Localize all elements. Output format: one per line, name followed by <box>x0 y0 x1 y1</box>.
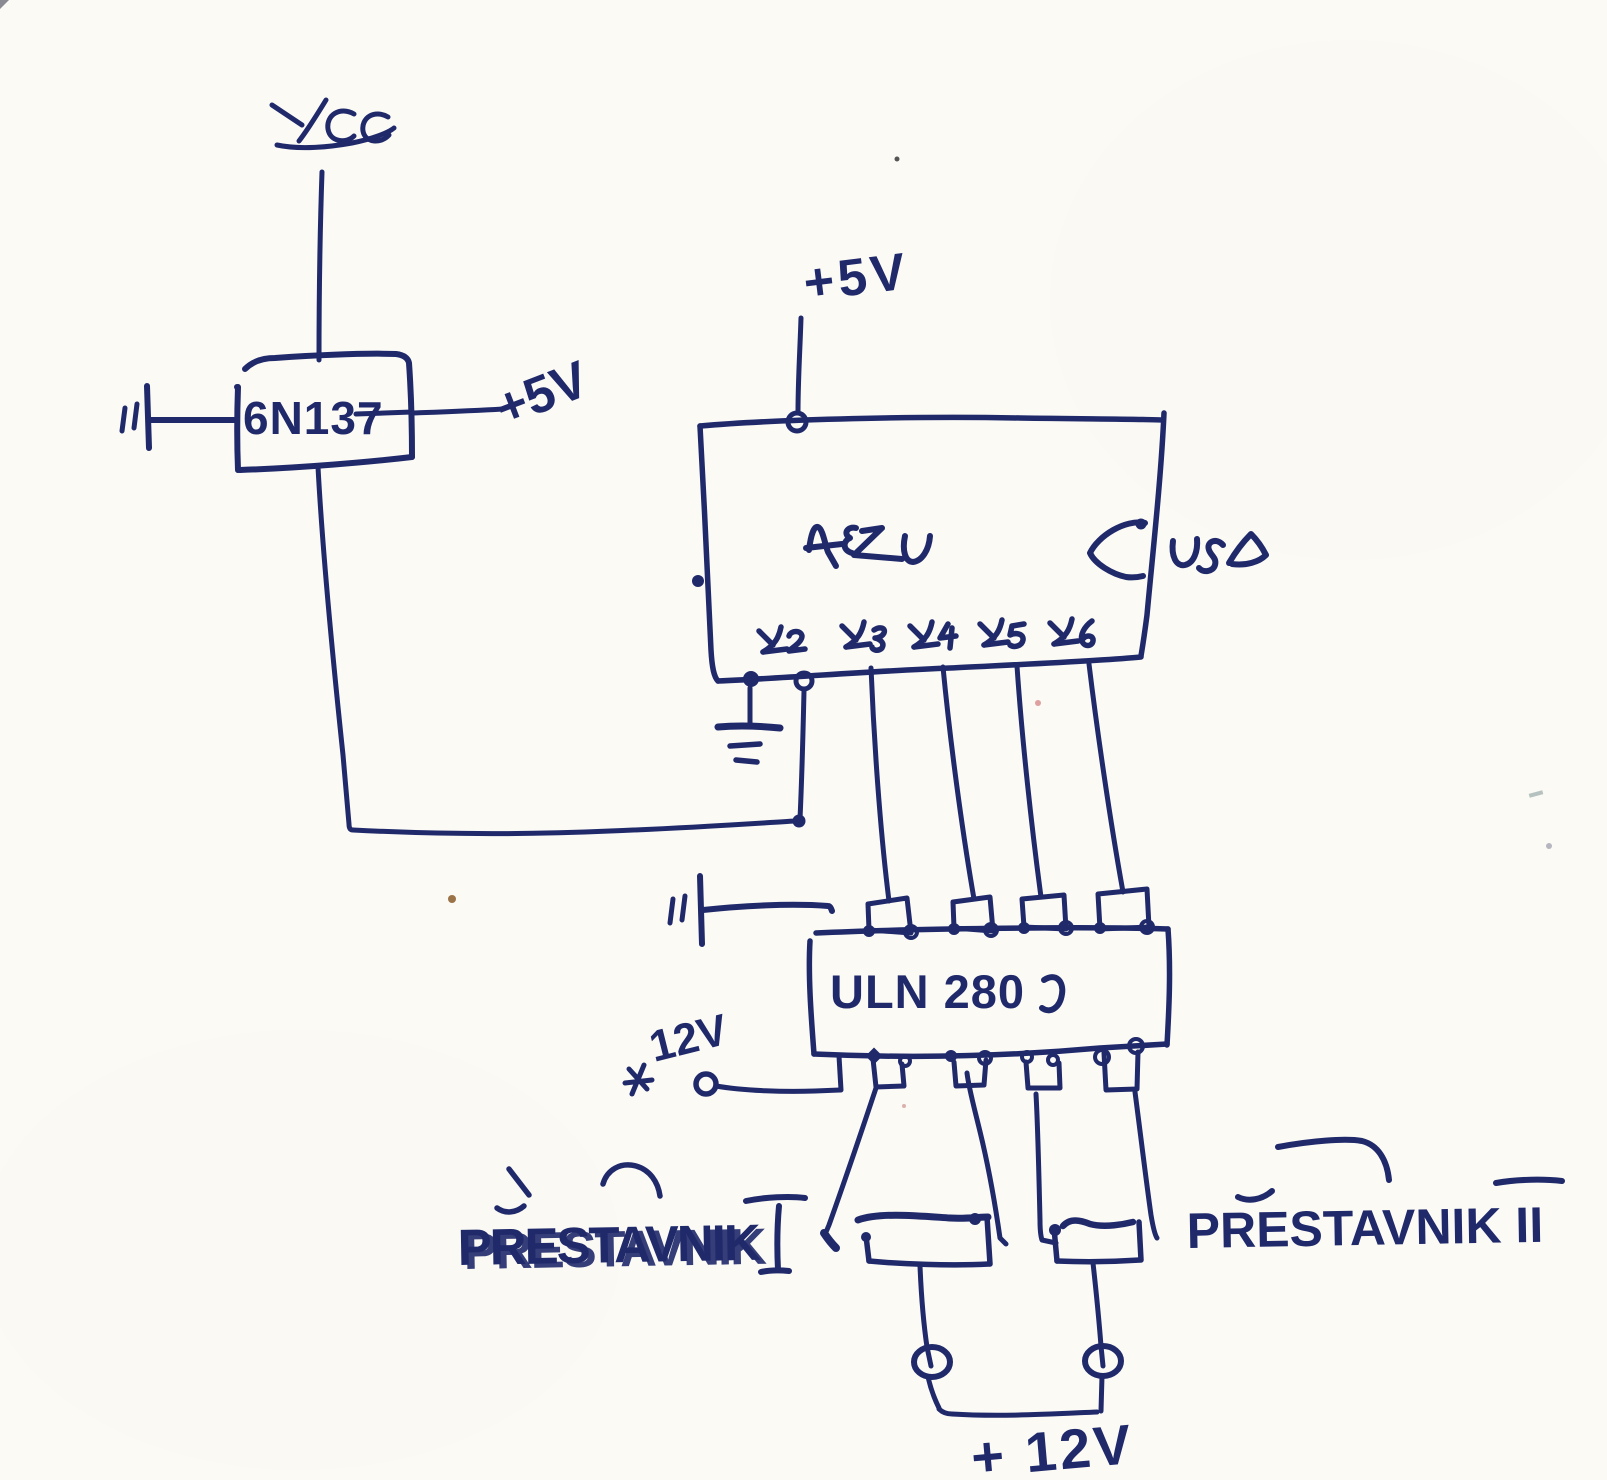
svg-text:PRESTAVNIK: PRESTAVNIK <box>463 1218 767 1280</box>
svg-text:6N137: 6N137 <box>243 392 384 444</box>
svg-text:ULN 280: ULN 280 <box>830 965 1025 1018</box>
svg-text:PRESTAVNIK II: PRESTAVNIK II <box>1186 1197 1543 1259</box>
